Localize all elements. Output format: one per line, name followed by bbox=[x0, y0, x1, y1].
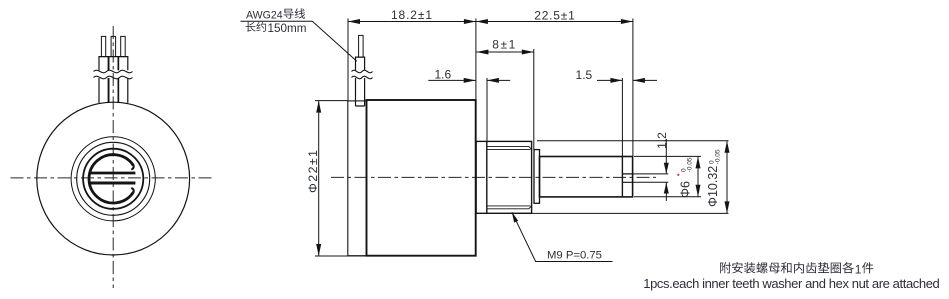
bushing outer rectangle bbox=[476, 141, 531, 213]
svg-text:8±1: 8±1 bbox=[492, 37, 515, 51]
front wires break wave upper bbox=[94, 70, 133, 73]
thread root line top bbox=[487, 148, 531, 150]
front view body outer circle bbox=[37, 102, 190, 255]
bushing washer divider bbox=[486, 141, 488, 213]
svg-text:22.5±1: 22.5±1 bbox=[534, 8, 575, 22]
front wire 1 body bbox=[99, 57, 108, 103]
svg-text:1: 1 bbox=[855, 263, 862, 277]
dimension 18.2±1 bbox=[348, 8, 476, 101]
svg-text:Φ10.32: Φ10.32 bbox=[706, 166, 720, 207]
front view vertical center line bbox=[112, 26, 114, 288]
shaft slot lines bbox=[622, 174, 632, 182]
shaft slot bottom face bbox=[621, 157, 623, 198]
svg-text:1pcs.each inner teeth washer a: 1pcs.each inner teeth washer and hex nut… bbox=[643, 276, 940, 291]
front view inner ring 2 bbox=[77, 142, 150, 215]
front wires break wave lower bbox=[94, 76, 133, 79]
front view shaft C-ring bbox=[89, 155, 133, 203]
svg-text:Φ6: Φ6 bbox=[678, 181, 692, 198]
front view slot bar bottom bbox=[90, 182, 135, 185]
front view inner ring 3 bbox=[83, 149, 143, 209]
front view inner ring 1 bbox=[71, 137, 155, 221]
svg-text:Φ22±1: Φ22±1 bbox=[306, 150, 320, 193]
shaft side view bbox=[540, 157, 633, 197]
leader M9 P=0.75 bbox=[512, 212, 613, 262]
stray red dot bbox=[677, 174, 679, 176]
dimension Φ22±1 bbox=[306, 101, 367, 256]
thread crest line top bbox=[487, 146, 532, 149]
dimension 1.6 bbox=[428, 67, 510, 141]
side wire break wave upper bbox=[352, 70, 373, 73]
front wire 2 tip bbox=[111, 36, 116, 56]
dimension 8±1 bbox=[476, 37, 533, 149]
front view horizontal center line bbox=[11, 177, 216, 179]
svg-text:18.2±1: 18.2±1 bbox=[391, 8, 432, 22]
side wire tip bbox=[359, 35, 364, 57]
leader AWG24 wire bbox=[241, 8, 357, 61]
dimension 1.2 slot width bbox=[633, 132, 669, 201]
side wire body bbox=[356, 57, 365, 106]
side view horizontal center line bbox=[331, 176, 656, 178]
svg-text:-0.05: -0.05 bbox=[714, 149, 721, 164]
side view rear cover bbox=[348, 101, 367, 256]
svg-text:M9 P=0.75: M9 P=0.75 bbox=[547, 249, 602, 261]
front wire 3 body bbox=[119, 57, 128, 103]
front wire 3 tip bbox=[121, 36, 126, 56]
dimension Φ10.32 0/-0.05 bbox=[518, 141, 730, 214]
bushing step ring bbox=[534, 150, 540, 204]
side view main body bbox=[367, 100, 476, 256]
svg-text:-0.05: -0.05 bbox=[687, 157, 694, 172]
front wire 2 body bbox=[109, 57, 118, 103]
svg-text:AWG24: AWG24 bbox=[246, 9, 283, 21]
dimension Φ6 0/-0.05 bbox=[634, 156, 701, 198]
svg-text:1.6: 1.6 bbox=[434, 67, 451, 81]
dimension 1.5 bbox=[576, 68, 657, 157]
front wire 1 tip bbox=[101, 36, 105, 56]
side wire break wave lower bbox=[352, 76, 373, 79]
front view C-ring top hook bbox=[131, 165, 133, 169]
note bottom Chinese bbox=[720, 262, 873, 277]
thread root line bottom bbox=[487, 205, 531, 207]
front view C-ring bottom hook bbox=[131, 188, 133, 192]
front view slot bar top bbox=[90, 172, 135, 175]
thread crest line bottom bbox=[487, 205, 532, 208]
svg-text:1.5: 1.5 bbox=[576, 68, 593, 82]
dimension 22.5±1 bbox=[476, 8, 633, 156]
svg-text:150mm: 150mm bbox=[268, 22, 307, 35]
